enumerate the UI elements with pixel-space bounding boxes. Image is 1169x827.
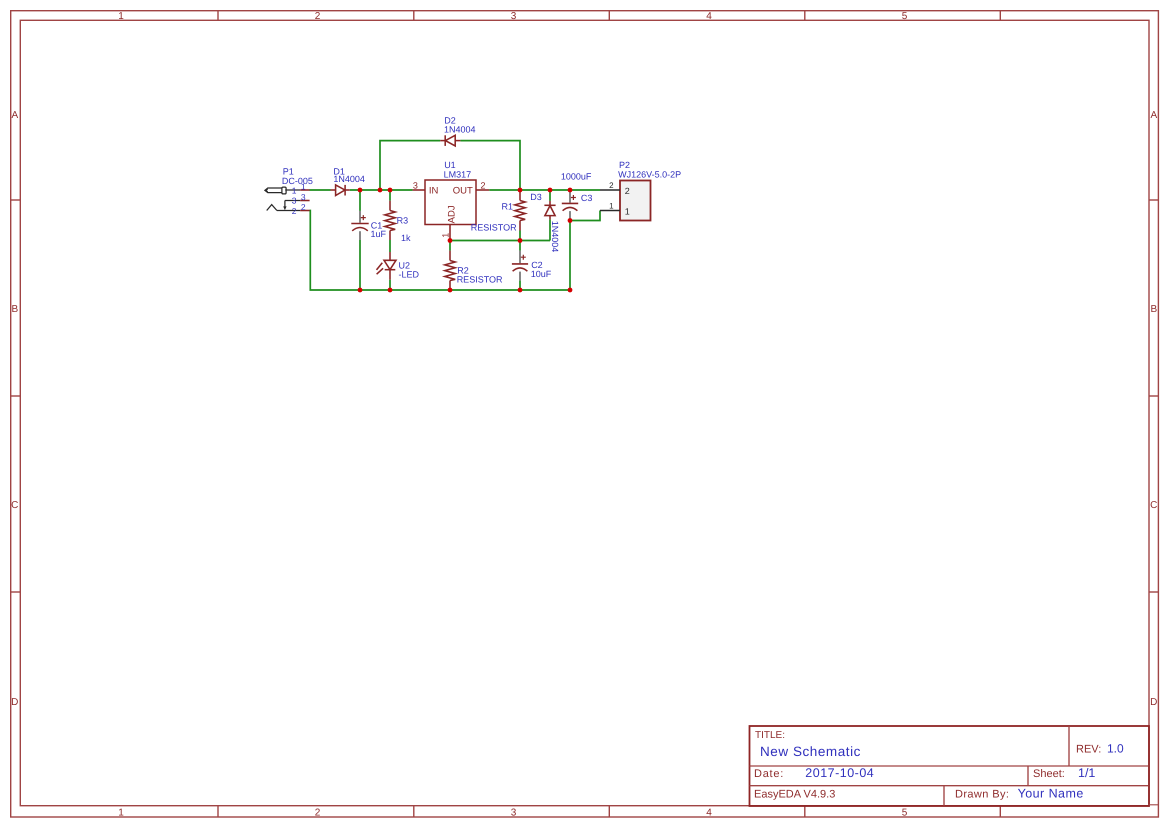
wire: D3 top bbox=[549, 190, 551, 201]
svg-text:5: 5 bbox=[902, 11, 908, 22]
U1 pin 2 lead bbox=[476, 189, 489, 191]
svg-text:P1: P1 bbox=[283, 166, 294, 176]
svg-text:4: 4 bbox=[706, 11, 712, 22]
svg-text:R1: R1 bbox=[502, 201, 514, 211]
svg-text:New Schematic: New Schematic bbox=[760, 744, 861, 759]
wire: ground bottom rail bbox=[310, 211, 571, 291]
wire: C1 top bbox=[359, 190, 361, 211]
svg-text:2: 2 bbox=[609, 181, 614, 190]
svg-text:A: A bbox=[11, 110, 18, 121]
svg-text:Drawn By:: Drawn By: bbox=[955, 789, 1009, 801]
svg-text:2: 2 bbox=[301, 202, 306, 212]
P1 pin names bbox=[292, 185, 297, 216]
wire: C2 bottom bbox=[519, 281, 521, 290]
wire: main rail P1 pin1 to D1 bbox=[310, 189, 331, 191]
svg-text:1k: 1k bbox=[401, 233, 411, 243]
svg-text:RESISTOR: RESISTOR bbox=[457, 275, 503, 285]
wire: D1 to U1 IN bbox=[350, 189, 413, 191]
svg-text:1: 1 bbox=[118, 807, 124, 818]
svg-text:3: 3 bbox=[413, 181, 418, 191]
svg-text:1: 1 bbox=[609, 202, 614, 211]
svg-text:C: C bbox=[1150, 500, 1157, 511]
wire: C2 top bbox=[519, 241, 521, 251]
svg-text:B: B bbox=[1150, 304, 1157, 315]
wire: R1 bottom bbox=[519, 231, 521, 241]
svg-text:1: 1 bbox=[292, 185, 297, 195]
svg-text:1: 1 bbox=[441, 233, 451, 238]
svg-text:3: 3 bbox=[511, 11, 517, 22]
svg-text:C: C bbox=[11, 500, 18, 511]
svg-text:REV:: REV: bbox=[1076, 744, 1101, 756]
svg-text:D3: D3 bbox=[530, 192, 542, 202]
wire: U1 OUT to P2 pin2 bbox=[489, 189, 600, 191]
svg-text:5: 5 bbox=[902, 807, 908, 818]
svg-text:OUT: OUT bbox=[453, 186, 473, 197]
LED U2 bbox=[377, 252, 397, 280]
svg-text:10uF: 10uF bbox=[531, 269, 552, 279]
svg-text:3: 3 bbox=[292, 196, 297, 206]
wire: C1 bottom bbox=[359, 240, 361, 290]
svg-text:WJ126V-5.0-2P: WJ126V-5.0-2P bbox=[618, 169, 681, 179]
svg-text:1N4004: 1N4004 bbox=[550, 221, 560, 253]
diode D3 bbox=[544, 201, 555, 220]
wire: R2 top bbox=[449, 241, 451, 251]
P1 pin3 arrowhead bbox=[283, 206, 286, 210]
wire: LED U2 bottom bbox=[389, 280, 391, 290]
svg-text:2: 2 bbox=[315, 807, 321, 818]
svg-text:A: A bbox=[1150, 110, 1157, 121]
P1 pin numbers bbox=[301, 181, 306, 211]
resistor R3 bbox=[385, 201, 395, 240]
svg-text:1N4004: 1N4004 bbox=[333, 174, 365, 184]
svg-text:2: 2 bbox=[480, 181, 485, 191]
svg-text:LM317: LM317 bbox=[444, 170, 472, 180]
wire: D2 bypass branch right bbox=[460, 141, 520, 190]
diode D2 bbox=[440, 135, 460, 146]
capacitor C3 bbox=[562, 191, 578, 220]
U1 pin 1 ADJ lead bbox=[449, 225, 451, 241]
svg-text:4: 4 bbox=[706, 807, 712, 818]
svg-text:1: 1 bbox=[625, 207, 630, 217]
capacitor C2 bbox=[512, 251, 528, 281]
wire: P2 pin1 to C3 node bbox=[570, 211, 600, 221]
svg-text:1000uF: 1000uF bbox=[561, 172, 592, 182]
junction dots bbox=[358, 188, 573, 293]
wire: D3 bottom to ADJ rail bbox=[549, 220, 551, 241]
diode D1 bbox=[331, 185, 350, 196]
svg-text:B: B bbox=[11, 304, 18, 315]
U1 pin 3 lead bbox=[413, 189, 425, 191]
svg-text:R3: R3 bbox=[397, 215, 409, 225]
svg-text:C3: C3 bbox=[581, 193, 593, 203]
svg-text:D: D bbox=[11, 697, 18, 708]
svg-text:ADJ: ADJ bbox=[447, 205, 458, 223]
svg-text:3: 3 bbox=[301, 192, 306, 202]
resistor R2 bbox=[445, 251, 455, 290]
wire: C3 bottom to bottom rail bbox=[569, 221, 571, 291]
connector P1 symbol bbox=[265, 187, 300, 210]
svg-text:D: D bbox=[1150, 697, 1157, 708]
svg-text:1uF: 1uF bbox=[371, 229, 387, 239]
wire: R3 top bbox=[389, 190, 391, 201]
svg-text:EasyEDA V4.9.3: EasyEDA V4.9.3 bbox=[754, 789, 835, 801]
svg-text:Sheet:: Sheet: bbox=[1033, 768, 1065, 780]
svg-text:2017-10-04: 2017-10-04 bbox=[805, 766, 874, 780]
svg-text:1.0: 1.0 bbox=[1107, 742, 1124, 756]
svg-text:1N4004: 1N4004 bbox=[444, 124, 476, 134]
svg-text:2: 2 bbox=[625, 186, 630, 196]
svg-text:Date:: Date: bbox=[754, 768, 784, 780]
resistor R1 bbox=[515, 190, 525, 231]
regulator U1 LM317 box bbox=[425, 180, 476, 225]
wire: D2 bypass branch left bbox=[380, 141, 440, 190]
svg-text:RESISTOR: RESISTOR bbox=[471, 223, 517, 233]
svg-text:3: 3 bbox=[511, 807, 517, 818]
svg-text:TITLE:: TITLE: bbox=[755, 730, 785, 741]
svg-text:IN: IN bbox=[429, 186, 439, 197]
svg-text:1/1: 1/1 bbox=[1078, 766, 1095, 780]
svg-text:Your Name: Your Name bbox=[1018, 787, 1084, 801]
svg-text:2: 2 bbox=[292, 206, 297, 216]
svg-text:2: 2 bbox=[315, 11, 321, 22]
connector P2 WJ126V-5.0-2P bbox=[600, 181, 651, 221]
svg-text:-LED: -LED bbox=[399, 269, 420, 279]
P1 pin stubs bbox=[300, 190, 309, 211]
svg-text:DC-005: DC-005 bbox=[282, 176, 313, 186]
wire: ADJ rail bbox=[450, 240, 550, 242]
capacitor C1 bbox=[351, 211, 368, 240]
svg-text:1: 1 bbox=[118, 11, 124, 22]
wire: R3 to LED U2 bbox=[389, 240, 391, 252]
